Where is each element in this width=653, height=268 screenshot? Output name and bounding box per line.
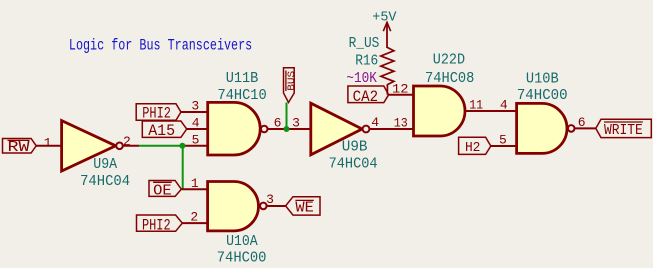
global label OE bbox=[149, 181, 181, 197]
global label CA2 bbox=[348, 86, 389, 103]
resistor R16 bbox=[381, 48, 394, 95]
NAND U10B bbox=[517, 103, 575, 153]
global label H2 bbox=[459, 137, 491, 154]
wire U11B out to U9B in bbox=[268, 128, 311, 130]
wire U10A out to WE bbox=[267, 205, 285, 207]
wire PHI2 to U11B pin3 bbox=[181, 111, 208, 113]
wire U22D out to U10B pin4 bbox=[465, 110, 517, 112]
svg-text:4: 4 bbox=[500, 98, 508, 113]
svg-text:74HC04: 74HC04 bbox=[80, 172, 130, 190]
svg-text:2: 2 bbox=[190, 210, 198, 225]
junction dot B bbox=[284, 126, 290, 132]
wire green vertical junction to OE node bbox=[182, 146, 184, 189]
power +5V symbol bbox=[383, 22, 390, 48]
wire U10B out to WRITE bbox=[575, 127, 596, 129]
svg-text:U22D: U22D bbox=[433, 51, 465, 69]
global label WRITE bbox=[596, 119, 652, 137]
global label BUS (vertical) bbox=[284, 68, 295, 103]
svg-text:3: 3 bbox=[292, 116, 300, 131]
global label A15 bbox=[142, 121, 186, 137]
svg-text:74HC04: 74HC04 bbox=[329, 155, 378, 173]
svg-text:74HC00: 74HC00 bbox=[517, 86, 568, 104]
svg-text:+5V: +5V bbox=[372, 10, 397, 26]
svg-text:1: 1 bbox=[44, 135, 52, 150]
svg-text:13: 13 bbox=[394, 115, 408, 130]
wire PHI2 to U10A pin2 bbox=[182, 222, 207, 224]
svg-text:3: 3 bbox=[191, 99, 199, 114]
wire OE to U10A pin1 bbox=[181, 188, 207, 190]
AND U22D bbox=[414, 86, 466, 136]
svg-text:U10A: U10A bbox=[226, 232, 258, 250]
wire CA2 to U22D pin12 bbox=[389, 94, 414, 96]
wire H2 to U10B pin5 bbox=[491, 145, 517, 147]
inverter U9B bbox=[311, 103, 370, 155]
svg-text:12: 12 bbox=[392, 82, 409, 97]
svg-text:5: 5 bbox=[192, 133, 200, 148]
svg-text:U10B: U10B bbox=[526, 69, 559, 87]
junction dot A bbox=[179, 143, 185, 149]
svg-text:74HC00: 74HC00 bbox=[217, 249, 267, 267]
svg-text:5: 5 bbox=[499, 133, 507, 148]
svg-text:CA2: CA2 bbox=[353, 88, 379, 106]
label BUS overline bbox=[285, 71, 287, 92]
svg-text:4: 4 bbox=[371, 115, 379, 130]
svg-text:74HC10: 74HC10 bbox=[218, 86, 267, 104]
inverter U9A bbox=[62, 121, 123, 171]
svg-text:R_US: R_US bbox=[349, 34, 380, 52]
global label PHI2 (lower) bbox=[137, 215, 183, 231]
global label WE bbox=[286, 197, 320, 215]
NAND U10A bbox=[208, 182, 267, 231]
svg-text:OE: OE bbox=[153, 181, 172, 199]
wire green U9A out to junction bbox=[139, 145, 183, 147]
svg-text:PHI2: PHI2 bbox=[142, 104, 171, 122]
svg-text:U11B: U11B bbox=[226, 69, 259, 87]
wire green BUS stub bbox=[286, 103, 288, 130]
global label PHI2 (upper) bbox=[136, 104, 181, 121]
svg-text:U9B: U9B bbox=[342, 138, 368, 156]
svg-text:Logic for Bus Transceivers: Logic for Bus Transceivers bbox=[69, 36, 252, 54]
svg-text:A15: A15 bbox=[148, 122, 175, 140]
svg-text:PHI2: PHI2 bbox=[142, 217, 171, 235]
svg-text:H2: H2 bbox=[465, 140, 481, 156]
svg-text:WE: WE bbox=[295, 198, 313, 216]
svg-text:WRITE: WRITE bbox=[604, 121, 643, 139]
wire U9A pin2 stub bbox=[123, 145, 139, 147]
wire RW to U9A pin1 bbox=[36, 145, 61, 147]
global label RW bbox=[3, 139, 37, 154]
svg-text:R16: R16 bbox=[355, 51, 378, 69]
wire U9B out to U22D pin13 bbox=[370, 128, 414, 130]
wire junction to U11B pin5 bbox=[183, 145, 208, 147]
svg-text:3: 3 bbox=[266, 192, 274, 207]
svg-text:74HC08: 74HC08 bbox=[425, 69, 474, 87]
svg-text:4: 4 bbox=[192, 116, 200, 131]
svg-text:~10K: ~10K bbox=[346, 69, 377, 87]
svg-text:1: 1 bbox=[191, 176, 199, 191]
svg-text:RW: RW bbox=[8, 140, 30, 156]
NAND U11B bbox=[208, 102, 268, 155]
wire A15 to U11B pin4 bbox=[187, 128, 208, 130]
svg-text:U9A: U9A bbox=[93, 155, 118, 173]
svg-text:BUS: BUS bbox=[286, 71, 298, 91]
